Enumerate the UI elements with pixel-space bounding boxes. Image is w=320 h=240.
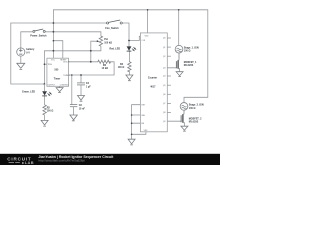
pin Q5 stub bbox=[167, 84, 171, 86]
svg-text:DISCH: DISCH bbox=[63, 62, 70, 64]
ground MOSFET_1 bbox=[176, 72, 183, 77]
junction switch line / rail vertical bbox=[53, 31, 55, 33]
svg-text:Timer: Timer bbox=[54, 78, 61, 81]
svg-text:Q7: Q7 bbox=[163, 103, 166, 105]
ground timer bbox=[56, 88, 63, 93]
junction C3 takeoff bbox=[71, 74, 73, 76]
wire wiper junction down to R3 line bbox=[90, 51, 92, 62]
wire rail drop to counter VDD bbox=[147, 10, 149, 33]
svg-text:555: 555 bbox=[54, 69, 59, 72]
svg-text:1 µF: 1 µF bbox=[86, 85, 91, 88]
ground MOSFET_2 bbox=[181, 126, 188, 131]
junction pot wiper tie bbox=[90, 50, 92, 52]
lamp Stage_1_IGN bbox=[175, 45, 183, 53]
svg-text:TRIG: TRIG bbox=[48, 64, 53, 66]
wire red LED node to counter CLK bbox=[129, 36, 140, 40]
svg-text:▸LAB: ▸LAB bbox=[21, 160, 34, 165]
pin Q2 stub bbox=[167, 55, 171, 57]
wire counter reset bus bbox=[132, 105, 141, 140]
footer logo LAB bbox=[9, 161, 20, 163]
resistor R3 bbox=[98, 60, 111, 63]
switch Fire_Switch bbox=[107, 20, 123, 24]
junction rail jog tee bbox=[53, 40, 55, 42]
svg-text:4017: 4017 bbox=[150, 86, 156, 89]
LED Red_LED bbox=[127, 46, 136, 51]
junction R3 left node bbox=[90, 61, 92, 63]
wire R3 right to THR line bbox=[69, 62, 115, 75]
junction timer left pin tie bbox=[44, 63, 46, 65]
LED Green_LED bbox=[42, 84, 51, 96]
svg-text:Q1: Q1 bbox=[163, 47, 166, 49]
switch Power_Switch bbox=[33, 29, 45, 32]
wire C3 drop bbox=[71, 75, 73, 104]
lamp Stage_2_IGN bbox=[180, 103, 188, 111]
svg-text:Q4: Q4 bbox=[163, 76, 166, 78]
wire counter gate2 to MOSFET_2 bbox=[167, 120, 181, 122]
potentiometer Pot 100k bbox=[94, 36, 103, 46]
transistor MOSFET_2 bbox=[181, 110, 184, 126]
wire pot wiper tie bbox=[91, 41, 94, 51]
ground counter bus bbox=[128, 139, 135, 145]
wire fire-switch line left portion bbox=[11, 22, 107, 24]
svg-text:100 Ω: 100 Ω bbox=[189, 107, 196, 110]
svg-text:Q8: Q8 bbox=[163, 112, 166, 114]
C3 lead bbox=[73, 107, 75, 115]
svg-text:IRL620S: IRL620S bbox=[184, 64, 194, 67]
junction reset bus VSS tie bbox=[131, 134, 133, 136]
wire counter gate1 to MOSFET_1 bbox=[167, 67, 176, 69]
ground battery bbox=[17, 63, 25, 69]
ground C2 bbox=[78, 96, 85, 102]
svg-text:10 kΩ: 10 kΩ bbox=[102, 67, 109, 70]
svg-text:Q9: Q9 bbox=[163, 121, 166, 123]
wire reset bus stub 2 bbox=[132, 114, 141, 116]
battery lead to ground bbox=[20, 56, 22, 63]
wire switch to pot top bbox=[46, 32, 101, 36]
IC timer 555 U1 bbox=[47, 58, 69, 86]
wire rail vertical through junctions bbox=[52, 10, 54, 58]
ground C3 bbox=[70, 115, 77, 121]
wire reset bus stub 3 bbox=[132, 122, 141, 124]
resistor R2 (green LED) bbox=[43, 105, 46, 115]
svg-text:Counter: Counter bbox=[148, 77, 157, 80]
junction rail VDD tee bbox=[147, 9, 149, 11]
resistor R4 bbox=[128, 62, 131, 72]
svg-text:100 Ω: 100 Ω bbox=[47, 110, 54, 113]
R4 lead bbox=[128, 71, 130, 75]
svg-text:Q2: Q2 bbox=[163, 56, 166, 58]
C2 lead bbox=[80, 85, 82, 96]
svg-text:Fire_Switch: Fire_Switch bbox=[105, 27, 119, 30]
capacitor C3 bbox=[70, 105, 77, 107]
wire jog to timer pin2 bbox=[53, 41, 62, 59]
junction C2 takeoff bbox=[80, 74, 82, 76]
wire top supply rail bbox=[53, 9, 207, 11]
junction rail stage1 tee bbox=[178, 9, 180, 11]
junction green LED node bbox=[44, 83, 46, 85]
transistor MOSFET_1 bbox=[176, 53, 179, 72]
svg-text:9 V: 9 V bbox=[26, 51, 30, 54]
junction reset bus stub 2 bbox=[131, 114, 133, 116]
wire battery to switch bbox=[21, 32, 33, 48]
junction timer VCC line bbox=[53, 50, 55, 52]
ground green LED chain bbox=[41, 120, 48, 126]
footer bar bbox=[0, 154, 220, 165]
svg-text:VCC: VCC bbox=[51, 60, 56, 62]
capacitor C2 bbox=[77, 83, 85, 85]
svg-text:Q6: Q6 bbox=[163, 94, 166, 96]
timer GND pin stub bbox=[59, 86, 61, 87]
pin Q0 stub bbox=[167, 37, 171, 39]
svg-text:Green_LED: Green_LED bbox=[22, 91, 35, 94]
wire right edge down to stage2 bbox=[184, 10, 208, 103]
junction fire-line / rail vertical bbox=[53, 22, 55, 24]
svg-text:Q0: Q0 bbox=[163, 38, 166, 40]
IC counter 4017 U2 bbox=[140, 33, 167, 132]
wire lamp2 to MOSFET_2 drain bbox=[183, 110, 185, 112]
battery V1 bbox=[17, 48, 25, 56]
ground R4 bbox=[126, 75, 133, 81]
wire timer left pin bbox=[44, 63, 47, 65]
svg-text:IRL620S: IRL620S bbox=[189, 121, 199, 124]
svg-text:VDD: VDD bbox=[145, 36, 150, 38]
svg-text:CONTROL: CONTROL bbox=[60, 84, 69, 86]
pin Q4 stub bbox=[167, 75, 171, 77]
svg-text:Q3: Q3 bbox=[163, 68, 166, 70]
svg-text:100 Ω: 100 Ω bbox=[118, 66, 125, 69]
wire timer DIS to R3 bbox=[69, 61, 98, 63]
wire green LED to resistor bbox=[44, 96, 46, 105]
svg-text:http://circuitlab.com/c/fh7er5: http://circuitlab.com/c/fh7er5q626jr/ bbox=[38, 158, 85, 162]
wire lamp1 to MOSFET_1 drain bbox=[178, 53, 180, 59]
R2 lead bbox=[44, 115, 46, 120]
junction reset bus stub 3 bbox=[131, 122, 133, 124]
svg-text:100 Ω: 100 Ω bbox=[184, 50, 191, 53]
wire red LED to R4 bbox=[128, 51, 130, 62]
wire C2 drop bbox=[80, 75, 82, 83]
wire counter VSS to bus bbox=[132, 132, 146, 135]
svg-text:Red_LED: Red_LED bbox=[110, 48, 121, 51]
wire vcc drop left to green LED junction bbox=[43, 51, 45, 84]
wire pot bottom line bbox=[44, 46, 101, 51]
svg-text:Q5: Q5 bbox=[163, 85, 166, 87]
svg-text:10 nF: 10 nF bbox=[79, 107, 86, 110]
svg-text:100 kΩ: 100 kΩ bbox=[104, 42, 112, 45]
wire left edge loop bbox=[11, 23, 45, 84]
junction red LED node bbox=[128, 40, 130, 42]
pin Q7 stub bbox=[167, 102, 171, 104]
wire rail drop to stage1 lamp bbox=[178, 10, 180, 46]
wire fire switch out to red LED bbox=[122, 23, 129, 46]
svg-text:OUTPUT: OUTPUT bbox=[47, 84, 56, 86]
pin Q1 stub bbox=[167, 46, 171, 48]
pin Q8 stub bbox=[167, 112, 171, 114]
svg-text:Power_Switch: Power_Switch bbox=[30, 35, 47, 38]
pin Q6 stub bbox=[167, 93, 171, 95]
svg-text:THRES: THRES bbox=[63, 75, 70, 77]
